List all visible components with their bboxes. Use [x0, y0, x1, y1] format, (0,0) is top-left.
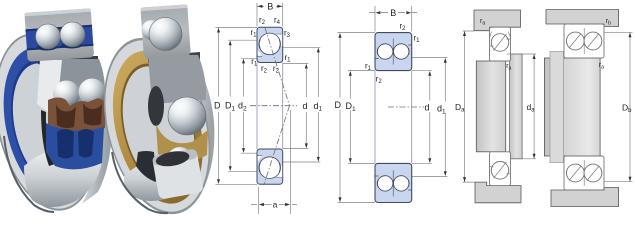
svg-text:r1: r1	[414, 34, 421, 45]
housing block bottom	[551, 188, 619, 207]
bore silhouette wires	[375, 71, 412, 164]
svg-text:Db: Db	[622, 103, 632, 115]
gold cage under ball	[156, 124, 208, 162]
Da dimension	[463, 31, 476, 182]
svg-text:r2: r2	[400, 22, 407, 33]
dim D1 vertical	[229, 42, 231, 170]
dark bottom rim right bearing	[112, 152, 168, 213]
svg-text:D: D	[335, 100, 342, 110]
interior far wall	[148, 55, 206, 104]
bore silhouette wires	[257, 63, 283, 150]
shaft step right	[595, 54, 601, 161]
interior ball A	[53, 81, 80, 108]
svg-text:r1: r1	[251, 28, 258, 39]
arrowheads left dims	[217, 28, 245, 184]
axis center line	[388, 106, 424, 108]
dim d2 vertical	[243, 60, 245, 152]
ball contact shadows	[37, 45, 57, 51]
shaft block	[544, 58, 600, 156]
Db dimension	[605, 32, 633, 181]
ball	[259, 33, 281, 55]
brown cage	[48, 98, 106, 134]
saddle bottom	[124, 156, 200, 201]
dark bottom rim	[4, 136, 54, 212]
svg-text:r4: r4	[274, 16, 281, 27]
white cavity left (low inner-ring shoulder)	[258, 50, 263, 56]
dim D vertical	[218, 29, 220, 183]
interior shadow under section	[38, 56, 98, 69]
big front ball	[168, 97, 206, 135]
dark between gold and block	[136, 151, 156, 182]
svg-text:D1: D1	[225, 101, 236, 113]
svg-text:Da: Da	[455, 102, 465, 114]
wire: B dimension line	[257, 5, 283, 7]
node: left dimension lines D D1 d2	[216, 27, 258, 184]
top section block	[24, 8, 94, 62]
cage lines	[259, 40, 280, 49]
face rings	[0, 24, 113, 220]
node: right dimension lines d d1	[283, 47, 321, 162]
svg-text:d1: d1	[314, 101, 323, 113]
right dims d d1	[412, 58, 448, 177]
svg-text:d: d	[425, 103, 430, 113]
svg-text:B: B	[267, 1, 273, 11]
hidden second ball	[142, 20, 162, 40]
section ball	[149, 18, 182, 51]
a dimension	[251, 110, 297, 214]
bore bottom: inner ring cut block	[152, 147, 204, 199]
housing block bottom	[475, 182, 521, 203]
left dims D D1	[338, 33, 376, 203]
section balls	[36, 24, 61, 49]
interior: inner-ring cut face	[37, 60, 62, 118]
shaft block	[476, 61, 505, 152]
svg-text:a: a	[273, 200, 278, 210]
lower partial ball	[167, 147, 193, 173]
shoulder edge lines	[258, 34, 283, 56]
svg-text:r2: r2	[261, 64, 268, 75]
contact angle line bottom	[264, 106, 290, 185]
housing block top	[546, 10, 619, 27]
bearing bottom section	[375, 163, 412, 202]
extension lines left bottom	[216, 153, 258, 184]
svg-text:d: d	[303, 101, 308, 111]
shaft shoulder column	[510, 54, 522, 159]
svg-text:D1: D1	[346, 101, 357, 113]
bearing top section	[257, 27, 283, 62]
bearing top section	[564, 24, 604, 58]
svg-text:d1: d1	[437, 104, 446, 116]
inner blue seal far side	[46, 123, 104, 169]
interior dark crescent	[41, 110, 55, 166]
outer cylindrical surface band (right side)	[172, 44, 214, 208]
svg-text:r1: r1	[285, 53, 292, 64]
shaft shoulder column left	[550, 52, 564, 163]
white cavity right (low outer-ring shoulder)	[276, 34, 283, 46]
outer cylindrical surface band (right side)	[72, 52, 111, 204]
bearing bottom section	[257, 149, 283, 184]
bearing top section (double row)	[375, 33, 412, 71]
svg-text:d2: d2	[238, 101, 247, 113]
svg-text:r2: r2	[259, 16, 266, 27]
face rings	[87, 27, 228, 226]
da dimension	[507, 54, 536, 159]
top section block	[140, 4, 190, 58]
B dimension	[375, 6, 412, 32]
interior dark crescent	[148, 86, 164, 126]
bearing top section (outline only)	[490, 27, 511, 61]
axis center line	[250, 105, 297, 107]
svg-text:r3: r3	[284, 29, 291, 40]
bearing bottom section	[564, 156, 604, 190]
interior shadow under section	[148, 52, 200, 66]
svg-text:B: B	[390, 8, 396, 18]
svg-text:r2: r2	[273, 64, 280, 75]
arrowheads B	[257, 5, 262, 8]
contact angle line top	[265, 28, 290, 106]
extension lines left top	[216, 27, 258, 58]
svg-text:D: D	[214, 101, 221, 111]
bearing bottom section	[490, 152, 511, 186]
wire: B dimension extension lines	[257, 3, 283, 27]
interior ball B	[79, 79, 106, 106]
interior: far wall	[50, 59, 105, 103]
housing block top	[474, 10, 521, 31]
outer-ring inner saddle (bottom)	[24, 147, 102, 207]
svg-text:r2: r2	[376, 75, 383, 86]
